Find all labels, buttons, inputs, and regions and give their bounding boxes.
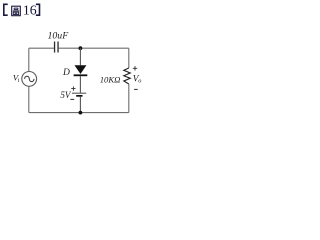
wire middle anode: [79, 48, 81, 65]
diode cathode bar: [74, 74, 88, 76]
label 10uF: [48, 31, 70, 42]
wire bottom rail: [29, 112, 129, 114]
header bracket left 【: [4, 4, 8, 15]
svg-text:5V: 5V: [60, 90, 72, 100]
source Vi circle: [22, 72, 37, 87]
resistor plus sign: [133, 66, 137, 70]
battery 5V short plate: [76, 95, 82, 97]
diode D triangle: [75, 65, 87, 74]
source sine wave: [25, 76, 34, 81]
wire battery to bottom: [79, 97, 81, 113]
wire top-right segment: [59, 47, 129, 49]
wire diode to battery: [79, 76, 81, 93]
wire top-left segment: [29, 47, 54, 49]
svg-text:Vo: Vo: [133, 75, 142, 85]
wire right upper: [128, 48, 130, 68]
svg-text:10KΩ: 10KΩ: [100, 75, 121, 85]
header glyph 圖: [12, 6, 21, 16]
header bracket right 】: [36, 4, 40, 15]
wire left lower: [28, 86, 30, 112]
battery plus sign: [71, 87, 75, 91]
svg-text:D: D: [62, 68, 70, 78]
resistor minus sign: [134, 88, 138, 90]
svg-text:Vi: Vi: [13, 73, 20, 85]
battery 5V long plate: [72, 92, 86, 94]
svg-text:10uF: 10uF: [48, 31, 70, 42]
battery minus sign: [70, 98, 74, 100]
capacitor C 10uF plates: [54, 42, 55, 53]
node junction bottom: [79, 111, 83, 115]
wire left upper: [28, 48, 30, 71]
svg-text:16: 16: [23, 3, 37, 18]
resistor 10KΩ zigzag: [124, 68, 130, 84]
wire right lower: [128, 84, 130, 113]
node junction top: [79, 46, 83, 50]
